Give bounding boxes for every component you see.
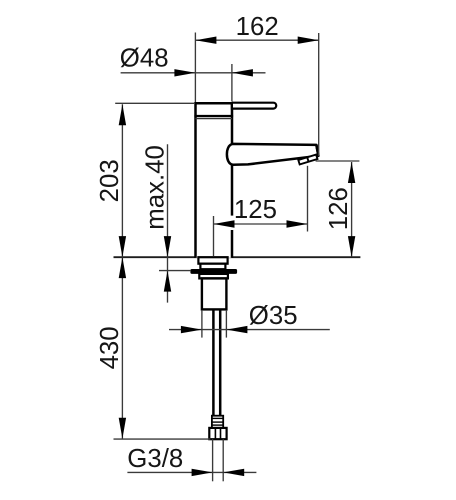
dimension 162 extension line right: [318, 33, 320, 156]
svg-text:162: 162: [236, 13, 279, 41]
dimension 125 arrow left: [214, 220, 235, 227]
svg-text:max.40: max.40: [142, 145, 170, 230]
dimension 125 arrow right: [287, 220, 308, 227]
svg-text:126: 126: [325, 187, 353, 230]
dimension 125 line: [214, 223, 308, 225]
dimension G3/8 arrow left: [192, 469, 213, 476]
dimension Ø48 extension line: [231, 64, 233, 102]
shank extension lines (for Ø35): [201, 310, 203, 338]
dimension G3/8 line: [127, 471, 256, 473]
dimension Ø35 arrow right: [226, 326, 247, 333]
dimension Ø48 arrow right: [232, 69, 253, 76]
thread tube below nut: [212, 439, 214, 481]
base flange (black bar): [190, 269, 237, 274]
dimension 126 line: [351, 162, 353, 257]
svg-text:G3/8: G3/8: [127, 445, 183, 473]
dimension 162 extension line left: [194, 33, 196, 103]
dimension 430 arrow down: [119, 418, 126, 439]
dimension Ø48 arrow left: [174, 69, 195, 76]
dimension 203 arrow up: [119, 104, 126, 125]
dimension 126 arrow up: [348, 162, 355, 183]
dimension 430 line: [121, 257, 123, 439]
mounting neck lower: [200, 264, 225, 270]
supply hose: [212, 309, 215, 415]
dimension 203 top extension line: [115, 102, 195, 104]
dimension 430 arrow up: [119, 257, 126, 278]
white gap patch on body edge for 125 dim: [231, 216, 234, 230]
dimension 203 line: [121, 104, 123, 257]
svg-text:125: 125: [234, 196, 277, 224]
cap joint line 2: [195, 118, 232, 120]
dimension 203 arrow down: [119, 236, 126, 257]
dimension 162 line: [195, 39, 318, 41]
collar under flange: [199, 274, 228, 279]
max.40 lower extension line: [159, 270, 191, 272]
svg-text:430: 430: [96, 326, 124, 369]
dimension 125 right extension line: [307, 166, 309, 232]
aerator at spout tip: [316, 145, 318, 156]
dimension max.40 arrow down: [164, 236, 171, 257]
dimension 162 arrow left: [195, 37, 216, 44]
svg-text:Ø35: Ø35: [249, 302, 298, 330]
dimension 126 arrow down: [348, 236, 355, 257]
dimension 162 arrow right: [298, 37, 319, 44]
dimension 126 top extension line: [316, 160, 360, 162]
body center axis line: [213, 216, 215, 256]
handle lever: [232, 103, 276, 109]
cap joint line: [194, 115, 233, 117]
dimension max.40 arrow up: [164, 271, 171, 292]
svg-text:Ø48: Ø48: [120, 45, 169, 73]
faucet body: [196, 103, 233, 258]
dimension max.40 line: [167, 144, 169, 302]
dimension Ø35 arrow left: [181, 326, 202, 333]
hose crimp ferrule: [212, 416, 223, 428]
svg-text:203: 203: [96, 159, 124, 202]
mounting neck upper: [198, 257, 227, 264]
countertop line: [114, 256, 361, 258]
dimension G3/8 arrow right: [223, 469, 244, 476]
threaded shank: [202, 278, 227, 309]
spout: [227, 144, 319, 165]
dimension Ø35 line: [169, 329, 330, 331]
connector nut: [209, 428, 226, 439]
dimension Ø48 line: [121, 72, 266, 74]
dimension 430 bottom extension line: [114, 438, 211, 440]
